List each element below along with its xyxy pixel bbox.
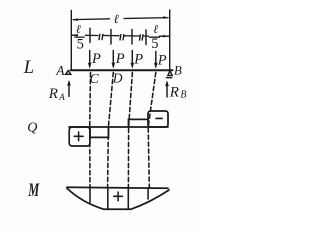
svg-text:P: P (133, 52, 143, 68)
svg-text:L: L (23, 58, 34, 78)
svg-text:P: P (157, 53, 167, 69)
svg-text:R: R (48, 86, 58, 102)
svg-text:P: P (91, 51, 101, 67)
svg-text:ℓ: ℓ (114, 12, 119, 26)
svg-text:P: P (115, 51, 125, 67)
svg-text:ℓ: ℓ (153, 22, 158, 36)
svg-text:B: B (174, 62, 182, 77)
svg-text:M: M (28, 180, 40, 201)
svg-text:5: 5 (151, 36, 158, 52)
svg-text:C: C (90, 71, 100, 86)
svg-text:R: R (169, 84, 179, 100)
svg-text:Q: Q (27, 121, 37, 136)
svg-text:ℓ: ℓ (76, 22, 81, 36)
svg-text:D: D (112, 71, 123, 86)
svg-text:B: B (180, 89, 186, 100)
svg-text:5: 5 (77, 37, 84, 53)
svg-text:A: A (55, 63, 65, 78)
svg-text:A: A (58, 92, 65, 102)
